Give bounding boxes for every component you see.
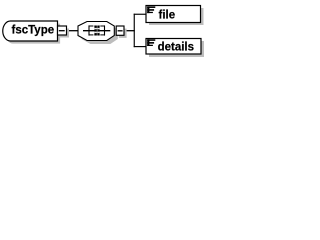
wire: branch to element file — [134, 13, 146, 15]
expand button 2 drop shadow — [119, 29, 127, 38]
octagon outline — [78, 22, 114, 41]
element box details — [146, 39, 204, 58]
wire: branch to element details — [134, 46, 146, 48]
expand button 1 drop shadow — [60, 29, 69, 38]
wire: vertical trunk — [133, 14, 135, 47]
expand button 1 minus sign — [59, 30, 65, 32]
wire: expand button 2 to trunk — [124, 30, 135, 32]
octagon drop shadow — [82, 25, 118, 44]
sequence icon stem line — [83, 30, 110, 32]
file text-content corner icon — [147, 6, 155, 13]
expand button 1 box — [58, 26, 67, 35]
file drop shadow — [149, 8, 204, 25]
expand button 2 box — [116, 26, 124, 35]
sequence icon left box bracket — [89, 25, 95, 35]
sequence compositor octagon — [78, 22, 118, 45]
file box outline — [146, 6, 201, 23]
details box outline — [146, 39, 201, 55]
fscType drop shadow — [5, 24, 60, 44]
svg-text:details: details — [158, 42, 194, 54]
element box file — [146, 6, 204, 26]
expand button 2 (collapse toggle with minus) — [116, 26, 126, 38]
complexType node fscType — [3, 21, 60, 44]
svg-text:fscType: fscType — [12, 25, 55, 37]
fscType outline (rounded left edge) — [3, 21, 58, 41]
details drop shadow — [149, 41, 204, 57]
sequence icon middle filled box — [94, 26, 99, 36]
sequence icon right box bracket — [100, 25, 105, 35]
wire: expand button 1 to sequence compositor — [67, 30, 79, 32]
expand button 1 (collapse toggle with minus) — [58, 26, 70, 38]
expand button 2 minus sign — [118, 30, 123, 32]
svg-text:file: file — [159, 10, 176, 22]
details text-content corner icon — [147, 39, 155, 46]
